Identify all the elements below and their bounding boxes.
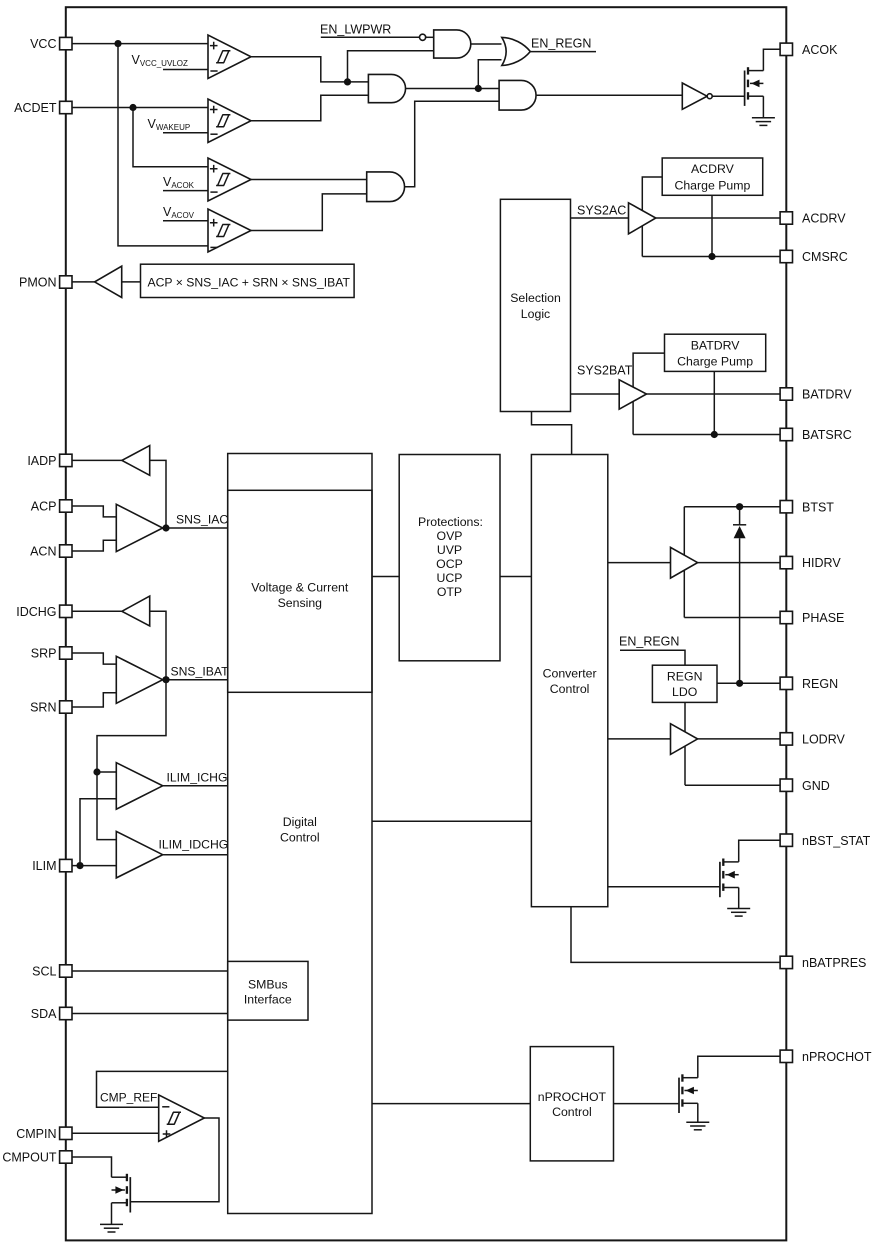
transistor Q1 ACOK open-drain xyxy=(745,67,764,106)
wire buffer B1 to formula box xyxy=(122,281,141,283)
amplifier A6 current sense IBAT xyxy=(116,656,162,703)
node REGN junction xyxy=(736,680,743,687)
svg-text:UVP: UVP xyxy=(437,543,462,557)
wire digital control to converter control xyxy=(372,820,531,822)
wire selection logic to converter control xyxy=(532,412,572,455)
block Selection Logic xyxy=(500,199,570,411)
wire GND net to pin xyxy=(685,784,780,786)
wire VCC down to comparator U4 - input xyxy=(118,44,208,246)
svg-text:Control: Control xyxy=(550,682,590,696)
wire junction to amplifier A7 top input xyxy=(97,771,116,773)
svg-text:SNS_IAC: SNS_IAC xyxy=(176,513,228,527)
wire REGN LDO output to REGN pin xyxy=(717,682,780,684)
pin PMON xyxy=(19,276,72,290)
block Protections xyxy=(399,455,500,661)
svg-text:PMON: PMON xyxy=(19,276,57,290)
svg-text:OTP: OTP xyxy=(437,585,462,599)
svg-text:IADP: IADP xyxy=(27,454,56,468)
node ACDET junction xyxy=(129,104,136,111)
pin CMPIN xyxy=(16,1127,72,1141)
transistor Q4 CMPOUT clamp xyxy=(112,1174,131,1213)
svg-text:CMP_REF: CMP_REF xyxy=(100,1091,157,1105)
pin CMSRC xyxy=(780,250,848,264)
svg-text:ACDRV: ACDRV xyxy=(802,212,846,226)
svg-text:Control: Control xyxy=(552,1105,592,1119)
wire PMON pin to buffer B1 xyxy=(72,281,95,283)
node VCC junction xyxy=(114,40,121,47)
svg-text:LDO: LDO xyxy=(672,685,697,699)
wire V_ACOK to U3 - input xyxy=(163,190,208,192)
node BTST junction xyxy=(736,503,743,510)
svg-text:CMPOUT: CMPOUT xyxy=(2,1151,57,1165)
svg-text:OVP: OVP xyxy=(437,529,463,543)
diode D1 bootstrap xyxy=(733,507,746,684)
node BATSRC junction xyxy=(711,431,718,438)
wire BATSRC to pin xyxy=(633,434,780,436)
block Digital Control xyxy=(228,454,372,1214)
wire Q4 source to ground xyxy=(111,1203,113,1224)
svg-text:CMSRC: CMSRC xyxy=(802,250,848,264)
wire converter control to Q2 gate xyxy=(608,886,720,888)
ground below Q2 xyxy=(727,909,750,917)
pin nBATPRES xyxy=(780,956,866,970)
pin ACN xyxy=(30,545,72,559)
svg-text:UCP: UCP xyxy=(437,571,463,585)
wire amplifier A8 output ILIM_IDCHG to digital control xyxy=(163,854,228,856)
wire AND A2 output to AND A3 top input xyxy=(406,88,500,90)
pin SDA xyxy=(31,1007,72,1021)
wire BTST pin net xyxy=(684,506,780,508)
svg-text:Digital: Digital xyxy=(283,815,317,829)
wire IDCHG pin to buffer B3 xyxy=(72,610,122,612)
block Voltage & Current Sensing xyxy=(228,490,372,692)
wire U3 output to AND A4 top input xyxy=(251,179,367,181)
svg-text:SRP: SRP xyxy=(31,647,57,661)
svg-text:nBATPRES: nBATPRES xyxy=(802,956,866,970)
amplifier A5 current sense IAC xyxy=(116,504,162,551)
svg-text:IDCHG: IDCHG xyxy=(16,605,56,619)
svg-text:Protections:: Protections: xyxy=(418,515,483,529)
svg-text:nBST_STAT: nBST_STAT xyxy=(802,834,871,848)
wire AND A1 output to OR O1 top input xyxy=(471,43,502,45)
driver D_HI HIDRV xyxy=(671,547,698,578)
wire amplifier A7 output ILIM_ICHG to digital control xyxy=(163,785,228,787)
wire ACDET down to comparator U3 + input xyxy=(133,108,208,167)
pin VCC xyxy=(30,37,72,51)
svg-text:ACDRV: ACDRV xyxy=(691,162,735,176)
wire AND A3 output to inverter xyxy=(537,94,683,96)
svg-text:Converter: Converter xyxy=(543,667,597,681)
formula box ACP x SNS_IAC + SRN x SNS_IBAT xyxy=(141,264,355,297)
wire SYS2BAT from selection logic xyxy=(571,393,620,395)
wire PHASE net to pin xyxy=(684,617,780,619)
wire EN_LWPWR to inverted input bubble xyxy=(321,36,420,38)
svg-text:nPROCHOT: nPROCHOT xyxy=(802,1050,872,1064)
svg-text:VCC: VCC xyxy=(30,37,56,51)
pin BATSRC xyxy=(780,428,852,442)
inverted input bubble of AND A1 xyxy=(420,34,426,40)
pin SRN xyxy=(30,701,72,715)
svg-text:ACDET: ACDET xyxy=(14,101,57,115)
block nPROCHOT Control xyxy=(530,1047,613,1161)
inverter INV1 output bubble xyxy=(707,94,712,99)
node U1 output junction xyxy=(344,78,351,85)
wire VCC pin to comparator U1 + input xyxy=(72,43,208,45)
svg-text:SNS_IBAT: SNS_IBAT xyxy=(171,665,230,679)
wire comparator U5 output to Q4 gate xyxy=(131,1118,219,1202)
block SMBus Interface xyxy=(228,961,308,1020)
svg-text:BATDRV: BATDRV xyxy=(802,388,852,402)
wire sensing block to protections block xyxy=(372,576,399,578)
node ILIM junction xyxy=(76,862,83,869)
svg-text:ACP × SNS_IAC + SRN × SNS_IBAT: ACP × SNS_IAC + SRN × SNS_IBAT xyxy=(148,275,351,289)
svg-text:BATSRC: BATSRC xyxy=(802,428,852,442)
svg-text:GND: GND xyxy=(802,779,830,793)
svg-text:SYS2BAT: SYS2BAT xyxy=(577,364,633,378)
pin BATDRV xyxy=(780,388,852,402)
wire amplifier A5 output SNS_IAC to sensing block xyxy=(163,527,228,529)
amplifier A8 ILIM_IDCHG xyxy=(116,831,162,878)
svg-text:PHASE: PHASE xyxy=(802,611,844,625)
wire Q3 source to ground xyxy=(697,1103,699,1122)
svg-text:LODRV: LODRV xyxy=(802,733,846,747)
svg-text:OCP: OCP xyxy=(436,557,463,571)
pin CMPOUT xyxy=(2,1151,72,1165)
node CMSRC junction xyxy=(708,253,715,260)
svg-text:Sensing: Sensing xyxy=(278,596,323,610)
pin GND xyxy=(780,779,830,793)
OR gate O1 EN_REGN xyxy=(502,37,531,65)
wire ILIM junction up to amplifier A7 bottom input xyxy=(80,799,116,866)
node SNS_IAC xyxy=(162,524,169,531)
wire SCL pin to SMBus interface xyxy=(72,970,228,972)
wire U1 output to junction xyxy=(251,57,368,82)
wire EN_REGN to REGN LDO xyxy=(620,650,685,665)
pin nBST_STAT xyxy=(780,834,871,848)
block ACDRV Charge Pump xyxy=(662,158,763,195)
pin ACDET xyxy=(14,101,72,115)
svg-text:nPROCHOT: nPROCHOT xyxy=(538,1090,607,1104)
wire REGN LDO down to GND net xyxy=(684,702,686,785)
wire Q1 source to ground xyxy=(762,96,764,117)
wire buffer B3 output down to SNS_IBAT node xyxy=(150,611,166,679)
node SNS_IBAT xyxy=(162,676,169,683)
wire BTST down to PHASE xyxy=(683,507,685,618)
wire driver to BATDRV pin xyxy=(647,393,781,395)
pin SCL xyxy=(32,965,72,979)
wire OR O1 output EN_REGN xyxy=(530,51,596,53)
svg-text:Charge Pump: Charge Pump xyxy=(677,355,753,369)
svg-text:ILIM_ICHG: ILIM_ICHG xyxy=(167,771,228,785)
wire SDA pin to SMBus interface xyxy=(72,1013,228,1015)
pin SRP xyxy=(31,647,72,661)
svg-text:ILIM: ILIM xyxy=(32,859,56,873)
wire digital control to nPROCHOT control xyxy=(372,1103,530,1105)
wire converter control to LODRV driver xyxy=(608,738,671,740)
wire buffer B2 output down to SNS_IAC node xyxy=(150,460,166,528)
svg-text:EN_LWPWR: EN_LWPWR xyxy=(320,23,391,37)
wire HIDRV driver to pin xyxy=(698,562,781,564)
svg-text:BATDRV: BATDRV xyxy=(691,338,741,352)
wire IADP pin to buffer B2 xyxy=(72,459,122,461)
svg-text:Charge Pump: Charge Pump xyxy=(674,178,750,192)
transistor Q2 nBST_STAT open-drain xyxy=(720,859,739,898)
wire SYS2AC from selection logic xyxy=(571,217,629,219)
wire converter control to nBATPRES pin xyxy=(571,907,780,963)
comparator U1 VCC UVLO xyxy=(208,35,251,79)
AND gate A1 xyxy=(434,30,471,58)
AND gate A2 xyxy=(368,74,405,102)
pin LODRV xyxy=(780,733,845,747)
wire Q3 drain to nPROCHOT pin xyxy=(698,1056,780,1077)
node A2 output junction xyxy=(475,85,482,92)
wire junction up to OR O1 bottom input xyxy=(478,60,501,89)
svg-text:SYS2AC: SYS2AC xyxy=(577,204,626,218)
AND gate A3 xyxy=(499,80,536,110)
wire SNS_IBAT node down to ILIM comparators xyxy=(97,680,166,840)
wire ILIM pin to amplifier A8 bottom input xyxy=(72,865,116,867)
svg-text:Logic: Logic xyxy=(521,307,550,321)
wire amplifier A6 output SNS_IBAT to sensing block xyxy=(163,679,228,681)
inverter INV1 xyxy=(682,83,707,109)
buffer B2 IADP (left pointing) xyxy=(122,446,150,476)
svg-text:BTST: BTST xyxy=(802,500,834,514)
buffer B1 PMON (left pointing) xyxy=(95,266,122,297)
wire charge pump down to CMSRC wire xyxy=(711,195,713,256)
wire ACDET pin to comparator U2 + input xyxy=(72,107,208,109)
pin BTST xyxy=(780,500,834,514)
svg-text:REGN: REGN xyxy=(802,677,838,691)
pin HIDRV xyxy=(780,556,841,570)
wire U2 output to AND A2 bottom input xyxy=(251,95,368,121)
ground below Q3 xyxy=(686,1122,709,1130)
wire CMP_REF from digital control to comparator U5 - input xyxy=(97,1071,228,1107)
wire inverter to Q1 gate xyxy=(712,95,744,97)
wire SRN pin to amplifier A6 xyxy=(72,693,116,707)
comparator U5 CMPIN xyxy=(159,1095,205,1141)
pin REGN xyxy=(780,677,838,691)
svg-text:Voltage & Current: Voltage & Current xyxy=(251,581,349,595)
svg-text:HIDRV: HIDRV xyxy=(802,556,841,570)
wire bubble to AND A1 top input xyxy=(425,36,434,38)
svg-text:Control: Control xyxy=(280,831,320,845)
pin IADP xyxy=(27,454,72,468)
wire SRP pin to amplifier A6 xyxy=(72,653,116,664)
pin ACOK xyxy=(780,43,838,57)
node ILIM_ICHG input junction xyxy=(93,768,100,775)
svg-text:SCL: SCL xyxy=(32,965,56,979)
svg-text:ACN: ACN xyxy=(30,545,56,559)
wire charge pump down to BATSRC wire xyxy=(713,371,715,434)
block REGN LDO xyxy=(652,665,717,702)
buffer B3 IDCHG (left pointing) xyxy=(122,596,150,626)
ground below Q1 xyxy=(752,118,775,126)
wire CMSRC to pin xyxy=(642,256,780,258)
block BATDRV Charge Pump xyxy=(665,334,766,371)
pin IDCHG xyxy=(16,605,72,619)
wire Q1 drain to ACOK pin xyxy=(763,49,780,70)
wire junction up to AND A1 bottom input xyxy=(348,51,434,82)
wire driver to ACDRV pin xyxy=(656,217,780,219)
wire ACDRV charge pump to CMSRC net xyxy=(642,177,662,257)
wire BATDRV charge pump to BATSRC net xyxy=(633,353,664,434)
pin ACDRV xyxy=(780,212,846,226)
svg-text:ACP: ACP xyxy=(31,500,57,514)
pin ILIM xyxy=(32,859,72,873)
wire nPROCHOT control to Q3 gate xyxy=(614,1103,680,1105)
transistor Q3 nPROCHOT open-drain xyxy=(679,1074,698,1113)
wire CMPOUT pin to Q4 drain xyxy=(72,1157,112,1177)
ground below Q4 xyxy=(100,1224,123,1232)
wire protections block to converter control xyxy=(500,576,531,578)
AND gate A4 xyxy=(367,172,405,202)
svg-text:Selection: Selection xyxy=(510,291,561,305)
svg-text:CMPIN: CMPIN xyxy=(16,1127,56,1141)
wire AND A4 output up to AND A3 bottom input xyxy=(405,101,500,187)
wire CMPIN pin to comparator U5 + input xyxy=(72,1132,159,1134)
svg-text:Interface: Interface xyxy=(244,993,292,1007)
comparator U2 WAKEUP xyxy=(208,99,251,143)
svg-text:ACOK: ACOK xyxy=(802,43,838,57)
svg-text:SDA: SDA xyxy=(31,1007,57,1021)
amplifier A7 ILIM_ICHG xyxy=(116,763,162,810)
driver D_LO LODRV xyxy=(671,724,698,755)
comparator U4 ACOV xyxy=(208,209,251,252)
driver D_BAT SYS2BAT buffer xyxy=(619,380,646,409)
svg-text:REGN: REGN xyxy=(667,670,703,684)
wire Q2 source to ground xyxy=(738,888,740,909)
block Converter Control xyxy=(531,455,607,907)
wire LODRV driver to pin xyxy=(698,738,781,740)
comparator U3 ACOK xyxy=(208,158,251,201)
wire V_WAKEUP to U2 - input xyxy=(163,132,208,134)
pin PHASE xyxy=(780,611,844,625)
svg-text:EN_REGN: EN_REGN xyxy=(619,635,679,649)
svg-text:SMBus: SMBus xyxy=(248,978,288,992)
svg-text:EN_REGN: EN_REGN xyxy=(531,37,591,51)
wire ACN pin to amplifier A5 xyxy=(72,540,116,551)
wire ACP pin to amplifier A5 xyxy=(72,506,116,517)
driver D_AC SYS2AC buffer xyxy=(629,203,656,234)
pin nPROCHOT xyxy=(780,1050,872,1064)
wire U4 output to AND A4 bottom input xyxy=(251,194,367,231)
wire converter control to HIDRV driver xyxy=(608,562,671,564)
wire V_VCC_UVLOZ to U1 - input xyxy=(163,69,208,71)
pin ACP xyxy=(31,500,72,514)
svg-text:ILIM_IDCHG: ILIM_IDCHG xyxy=(159,838,229,852)
svg-text:SRN: SRN xyxy=(30,701,56,715)
wire V_ACOV to U4 + input xyxy=(163,220,208,222)
wire Q2 drain to nBST_STAT pin xyxy=(739,840,780,862)
